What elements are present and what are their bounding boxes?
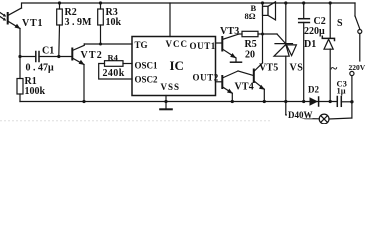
svg-text:VT4: VT4 [235,82,255,93]
node D1 top on rail [329,1,332,4]
svg-text:VT5: VT5 [259,63,279,74]
svg-text:OSC2: OSC2 [135,75,159,85]
svg-text:220V: 220V [349,63,366,72]
svg-text:VT1: VT1 [22,18,43,29]
switch lower terminal [350,71,354,118]
wire OUT1 pin to VT3 base [216,42,222,44]
label R3 [106,7,118,18]
label R5 [245,39,257,50]
diode D2 [310,97,319,106]
label VT4 [235,82,255,93]
node triac crossing ground rail [284,100,287,103]
label VT1 [22,18,43,29]
svg-text:D1: D1 [304,39,316,50]
wire VT4 emitter to ground rail [231,93,234,103]
pin TG [135,40,148,50]
label C3 [337,79,347,89]
label 240k [103,68,125,79]
wire lamp line [286,115,320,119]
svg-text:D2: D2 [308,85,319,95]
wire VT2 emitter to ground rail [82,65,85,104]
wire VT1 emitter down to node [19,29,21,79]
label C2 [314,16,326,27]
node junction C1/R2/VT2 [57,55,60,58]
svg-text:20: 20 [245,50,255,61]
faint page rule [0,120,270,122]
node D1 bottom on ground rail [329,100,332,103]
node triac on rail [284,1,287,4]
label D40W [287,110,313,120]
wire top supply rail [22,3,356,8]
pin VCC [166,39,189,49]
svg-text:IC: IC [170,58,184,73]
light arrows into VT1 [0,13,6,21]
label 8ohm [245,11,256,21]
node mains/C3 junction [350,100,353,103]
svg-text:~: ~ [331,61,338,76]
svg-text:VCC: VCC [166,39,189,49]
label D2 [308,85,319,95]
label 100k [25,86,46,97]
label 10k [106,17,122,28]
label R2 [65,7,77,18]
op-amp U1 : IC box [132,37,216,96]
node speaker bus on rail [261,1,264,4]
label 1u [337,86,346,96]
label VT2 [81,50,104,61]
wire VT4 collector to VT5 base [238,71,254,76]
capacitor C1 [20,52,72,62]
svg-text:VSS: VSS [161,82,181,92]
triac VS [274,3,296,115]
svg-text:OUT1: OUT1 [190,41,216,51]
resistor R4 [99,61,132,79]
svg-text:3 . 9M: 3 . 9M [65,17,93,28]
resistor R3 [98,1,104,44]
wire VCC pin to rail [169,3,171,37]
label VT3 [220,26,240,37]
node C2 top on rail [302,1,305,4]
pin OSC1 [135,61,159,71]
pin VSS [161,82,181,92]
wire R5 to triac gate [277,34,286,43]
svg-text:0 . 47μ: 0 . 47μ [26,63,55,74]
label B [251,3,257,13]
node C2 bottom on ground rail [302,100,305,103]
svg-text:240k: 240k [103,68,125,79]
svg-text:OSC1: OSC1 [135,61,159,71]
label ~220V [331,61,366,76]
pin OUT1 [190,41,216,51]
wire VSS pin to ground rail [164,96,167,104]
label D1 [304,39,316,50]
transistor VT4 [222,71,238,94]
transistor VT3 [222,34,239,58]
zener diode D1 [322,3,334,102]
svg-text:R5: R5 [245,39,257,50]
capacitor C2 [299,3,310,102]
label 20 [245,50,255,61]
wire VT2 collector to IC TG [84,43,132,45]
resistor R1 [17,79,23,102]
svg-text:C1: C1 [42,46,54,57]
label 3.9M [65,17,93,28]
switch S [355,3,362,61]
svg-text:1μ: 1μ [337,86,346,96]
speaker B [263,2,276,20]
label 220u [304,26,325,37]
svg-text:S: S [337,18,343,29]
svg-text:D40W: D40W [288,110,313,120]
ground below VSS [160,102,172,110]
label S [337,18,343,29]
label IC [170,58,184,73]
svg-text:VS: VS [290,63,304,74]
svg-text:8Ω: 8Ω [245,11,256,21]
svg-text:R4: R4 [108,53,119,63]
wire VT5 emitter to ground rail [263,89,266,103]
svg-text:10k: 10k [106,17,122,28]
lamp D40W [319,114,352,124]
label VT5 [259,63,279,74]
node junction R3/VT2 collector/TG [99,43,102,46]
ground at VT3 emitter [231,58,242,62]
svg-text:OUT2: OUT2 [193,73,219,83]
svg-text:100k: 100k [25,86,46,97]
pin OUT2 [193,73,219,83]
label C1 [42,46,54,57]
resistor R2 [57,1,63,56]
wire speaker bus [262,3,264,63]
svg-text:VT3: VT3 [220,26,240,37]
transistor VT5 [254,63,265,90]
svg-text:TG: TG [135,40,148,50]
pin OSC2 [135,75,159,85]
label VS [290,63,304,74]
label 0.47u [26,63,55,74]
svg-text:220μ: 220μ [304,26,325,37]
resistor R5 [239,31,277,36]
wire OUT2 pin to VT4 base [216,81,222,83]
capacitor C3 [337,97,352,107]
phototransistor VT1 [8,8,22,29]
transistor VT2 [72,44,84,65]
label R1 [25,76,37,87]
wire ground rail [20,101,337,103]
svg-text:VT2: VT2 [81,50,104,61]
node R5 lead crossing speaker bus [261,33,264,36]
label R4 [108,53,119,63]
node junction VT1/C1/R1 [18,55,21,58]
